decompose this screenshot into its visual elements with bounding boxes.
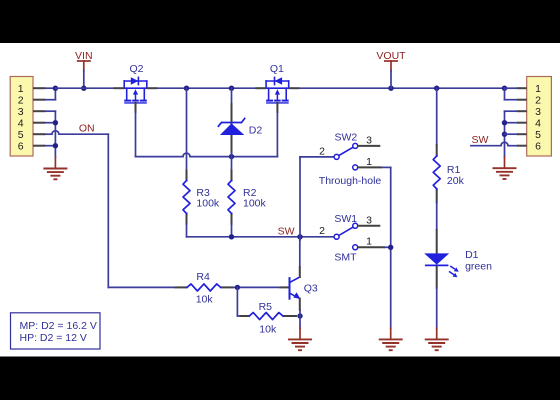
ground (below J1) bbox=[43, 157, 67, 179]
net label ON bbox=[79, 123, 95, 135]
resistor R1 bbox=[433, 156, 440, 189]
pin label 1 (SW1) bbox=[366, 236, 372, 248]
label Q2 bbox=[130, 63, 144, 75]
resistor R5 leads bbox=[240, 315, 298, 317]
junction R4-R5 bbox=[235, 285, 240, 290]
junction J1 pin4 bbox=[53, 120, 58, 125]
ground (below J2) bbox=[493, 157, 517, 179]
resistor R2 bbox=[228, 181, 235, 214]
switch SW2 pin 1 lead bbox=[358, 166, 382, 168]
svg-text:1: 1 bbox=[535, 83, 541, 95]
junction rail D2 bbox=[229, 86, 234, 91]
svg-text:4: 4 bbox=[535, 118, 541, 130]
junction switch ground bus bbox=[388, 245, 393, 250]
junction VIN bbox=[81, 86, 86, 91]
LED D1 bbox=[424, 253, 449, 265]
wire Q3 emitter to ground bbox=[299, 310, 301, 329]
connector J1 pin leads bbox=[33, 88, 45, 146]
transistor Q1 source/drain leads bbox=[255, 87, 299, 89]
wire J2 pins 1-2 to VOUT rail bbox=[505, 88, 517, 100]
svg-text:10k: 10k bbox=[259, 324, 277, 336]
svg-text:6: 6 bbox=[18, 141, 24, 153]
label SW1 bbox=[334, 213, 357, 225]
wire VIN rail bbox=[55, 87, 113, 89]
resistor R4 bbox=[187, 284, 221, 291]
wire J2 pins 3-4-5 ground bus bbox=[505, 111, 517, 157]
svg-text:10k: 10k bbox=[196, 294, 214, 306]
junction J2 pin1 bbox=[502, 86, 507, 91]
diode D2 leads bbox=[231, 104, 233, 153]
svg-text:VOUT: VOUT bbox=[376, 50, 406, 62]
white schematic canvas bbox=[0, 43, 560, 357]
svg-text:5: 5 bbox=[18, 129, 24, 141]
junction R1 top bbox=[434, 86, 439, 91]
wire Q3 collector to SW bbox=[299, 237, 301, 267]
label D2 bbox=[249, 125, 263, 137]
wire D2 to R2 bbox=[231, 157, 233, 171]
switch SW2 pin 3 lead bbox=[358, 145, 380, 147]
resistor R3 leads bbox=[186, 170, 188, 224]
label Q3 bbox=[304, 283, 318, 295]
svg-text:Q1: Q1 bbox=[270, 63, 284, 75]
svg-text:R5: R5 bbox=[259, 301, 273, 313]
wire R4 to Q3 base bbox=[234, 286, 280, 288]
transistor Q2 (P-MOSFET) bbox=[124, 77, 147, 112]
LED D1 light arrows bbox=[449, 266, 459, 277]
wire gate net Q2-Q1 bbox=[136, 112, 278, 157]
junction J2 pin4 bbox=[502, 120, 507, 125]
svg-text:6: 6 bbox=[535, 141, 541, 153]
wire SW2 pin1 to ground bus bbox=[382, 167, 391, 328]
svg-text:20k: 20k bbox=[447, 175, 465, 187]
switch SW1 bbox=[334, 223, 358, 250]
switch SW1 pin 3 lead bbox=[358, 225, 380, 227]
svg-text:D1: D1 bbox=[465, 249, 479, 261]
resistor R1 leads bbox=[436, 145, 438, 202]
transistor Q2 source/drain leads bbox=[114, 87, 158, 89]
wire D2 to gate net bbox=[231, 153, 233, 157]
label R5 bbox=[259, 301, 277, 336]
label Through-hole bbox=[319, 175, 382, 187]
supply symbol VIN bbox=[75, 50, 93, 71]
note box D2 voltage bbox=[11, 313, 101, 349]
svg-text:Q2: Q2 bbox=[130, 63, 144, 75]
wire R1 to D1 bbox=[436, 202, 438, 230]
svg-text:4: 4 bbox=[18, 118, 24, 130]
svg-text:SW1: SW1 bbox=[334, 213, 357, 225]
transistor Q3 collector lead bbox=[299, 267, 301, 277]
label SW2 bbox=[335, 131, 358, 143]
label R2 bbox=[243, 187, 267, 210]
pin label 1 (SW2) bbox=[366, 156, 372, 168]
wire VIN to rail bbox=[83, 71, 85, 89]
wire R4 node to R5 bbox=[237, 287, 239, 316]
switch SW1 pin 1 lead bbox=[358, 246, 385, 248]
junction SW-R2 bbox=[229, 234, 234, 239]
wire J1 pins 3-4-6 ground bus bbox=[45, 111, 55, 157]
wire J2 pin5 to bus bbox=[505, 133, 517, 135]
svg-text:VIN: VIN bbox=[75, 50, 93, 62]
svg-text:ON: ON bbox=[79, 123, 95, 135]
junction J2 pin5 bbox=[502, 132, 507, 137]
net label SW (right) bbox=[472, 134, 489, 146]
svg-text:1: 1 bbox=[366, 236, 372, 248]
svg-text:100k: 100k bbox=[243, 198, 267, 210]
svg-text:1: 1 bbox=[366, 156, 372, 168]
svg-text:SW: SW bbox=[472, 134, 489, 146]
wire VOUT rail bbox=[299, 87, 504, 89]
transistor Q3 (NPN) bbox=[290, 277, 301, 299]
svg-text:5: 5 bbox=[535, 129, 541, 141]
svg-text:Q3: Q3 bbox=[304, 283, 318, 295]
svg-text:3: 3 bbox=[366, 135, 372, 147]
junction J1 pin6 bbox=[53, 143, 58, 148]
connector J2 pin leads bbox=[517, 88, 527, 146]
label Q1 bbox=[270, 63, 284, 75]
label SMT bbox=[334, 252, 357, 264]
wire rail to R3 bbox=[186, 88, 188, 170]
resistor R2 leads bbox=[231, 170, 233, 224]
svg-text:R4: R4 bbox=[196, 271, 210, 283]
pin label 2 (SW1) bbox=[319, 225, 325, 237]
svg-text:3: 3 bbox=[18, 106, 24, 118]
wire R2 to SW net bbox=[231, 224, 233, 237]
junction SW node bbox=[297, 234, 302, 239]
svg-text:SW2: SW2 bbox=[335, 131, 358, 143]
resistor R4 leads bbox=[174, 286, 233, 288]
svg-text:1: 1 bbox=[18, 83, 24, 95]
svg-text:100k: 100k bbox=[196, 198, 220, 210]
wire SW to SW2 bbox=[300, 157, 334, 237]
connector J2 (right, pins 1-6) bbox=[527, 77, 552, 157]
wire R3 to SW net bbox=[186, 224, 188, 237]
label D1 bbox=[465, 249, 492, 273]
svg-text:2: 2 bbox=[535, 95, 541, 107]
svg-text:Through-hole: Through-hole bbox=[319, 175, 382, 187]
svg-text:D2: D2 bbox=[249, 125, 263, 137]
net label SW (center) bbox=[278, 225, 295, 237]
switch SW2 bbox=[334, 143, 358, 170]
transistor Q3 emitter lead bbox=[299, 299, 301, 310]
wire VOUT to rail bbox=[390, 71, 392, 89]
junction R5-emitter bbox=[297, 313, 302, 318]
wire SW net to J2 pin6 bbox=[471, 142, 517, 146]
wire rail Q2 to Q1 bbox=[157, 87, 256, 89]
wire SW net bbox=[187, 236, 334, 238]
connector J1 (left, pins 1-6) bbox=[10, 77, 33, 157]
resistor R3 bbox=[183, 181, 190, 214]
wire SW1 pin1 to ground bus bbox=[385, 246, 391, 248]
ground (below D1) bbox=[425, 328, 449, 350]
svg-text:SMT: SMT bbox=[334, 252, 357, 264]
svg-text:SW: SW bbox=[278, 225, 295, 237]
wire rail to R1 bbox=[436, 88, 438, 145]
supply symbol VOUT bbox=[376, 50, 406, 71]
svg-text:3: 3 bbox=[535, 106, 541, 118]
svg-text:green: green bbox=[465, 261, 492, 273]
label R1 bbox=[447, 164, 465, 187]
zener diode D2 bbox=[218, 118, 244, 135]
pin label 3 (SW2) bbox=[366, 135, 372, 147]
svg-text:HP: D2 = 12 V: HP: D2 = 12 V bbox=[20, 332, 87, 344]
pin label 3 (SW1) bbox=[366, 215, 372, 227]
wire rail to D2 bbox=[231, 88, 233, 104]
svg-text:MP: D2 = 16.2 V: MP: D2 = 16.2 V bbox=[20, 320, 97, 332]
ground (below Q3) bbox=[288, 328, 312, 350]
svg-text:2: 2 bbox=[319, 145, 325, 157]
junction rail R3 bbox=[184, 86, 189, 91]
junction gate-D2 bbox=[229, 154, 234, 159]
wire J1 pins 1-2 to VIN rail bbox=[45, 88, 55, 100]
wire ON net (J1 pin5 to R4) bbox=[45, 131, 174, 288]
pin label 2 (SW2) bbox=[319, 145, 325, 157]
diode D1 leads bbox=[436, 230, 438, 288]
ground (below switches) bbox=[379, 328, 403, 350]
label R3 bbox=[196, 187, 220, 210]
junction VOUT bbox=[388, 86, 393, 91]
transistor Q1 (P-MOSFET) bbox=[266, 77, 289, 112]
junction J1 pin1 bbox=[53, 86, 58, 91]
svg-text:2: 2 bbox=[18, 95, 24, 107]
svg-text:3: 3 bbox=[366, 215, 372, 227]
svg-text:2: 2 bbox=[319, 225, 325, 237]
wire D1 to ground bbox=[436, 288, 438, 328]
transistor Q3 base lead bbox=[280, 286, 289, 288]
resistor R5 bbox=[249, 313, 283, 320]
label R4 bbox=[196, 271, 214, 306]
